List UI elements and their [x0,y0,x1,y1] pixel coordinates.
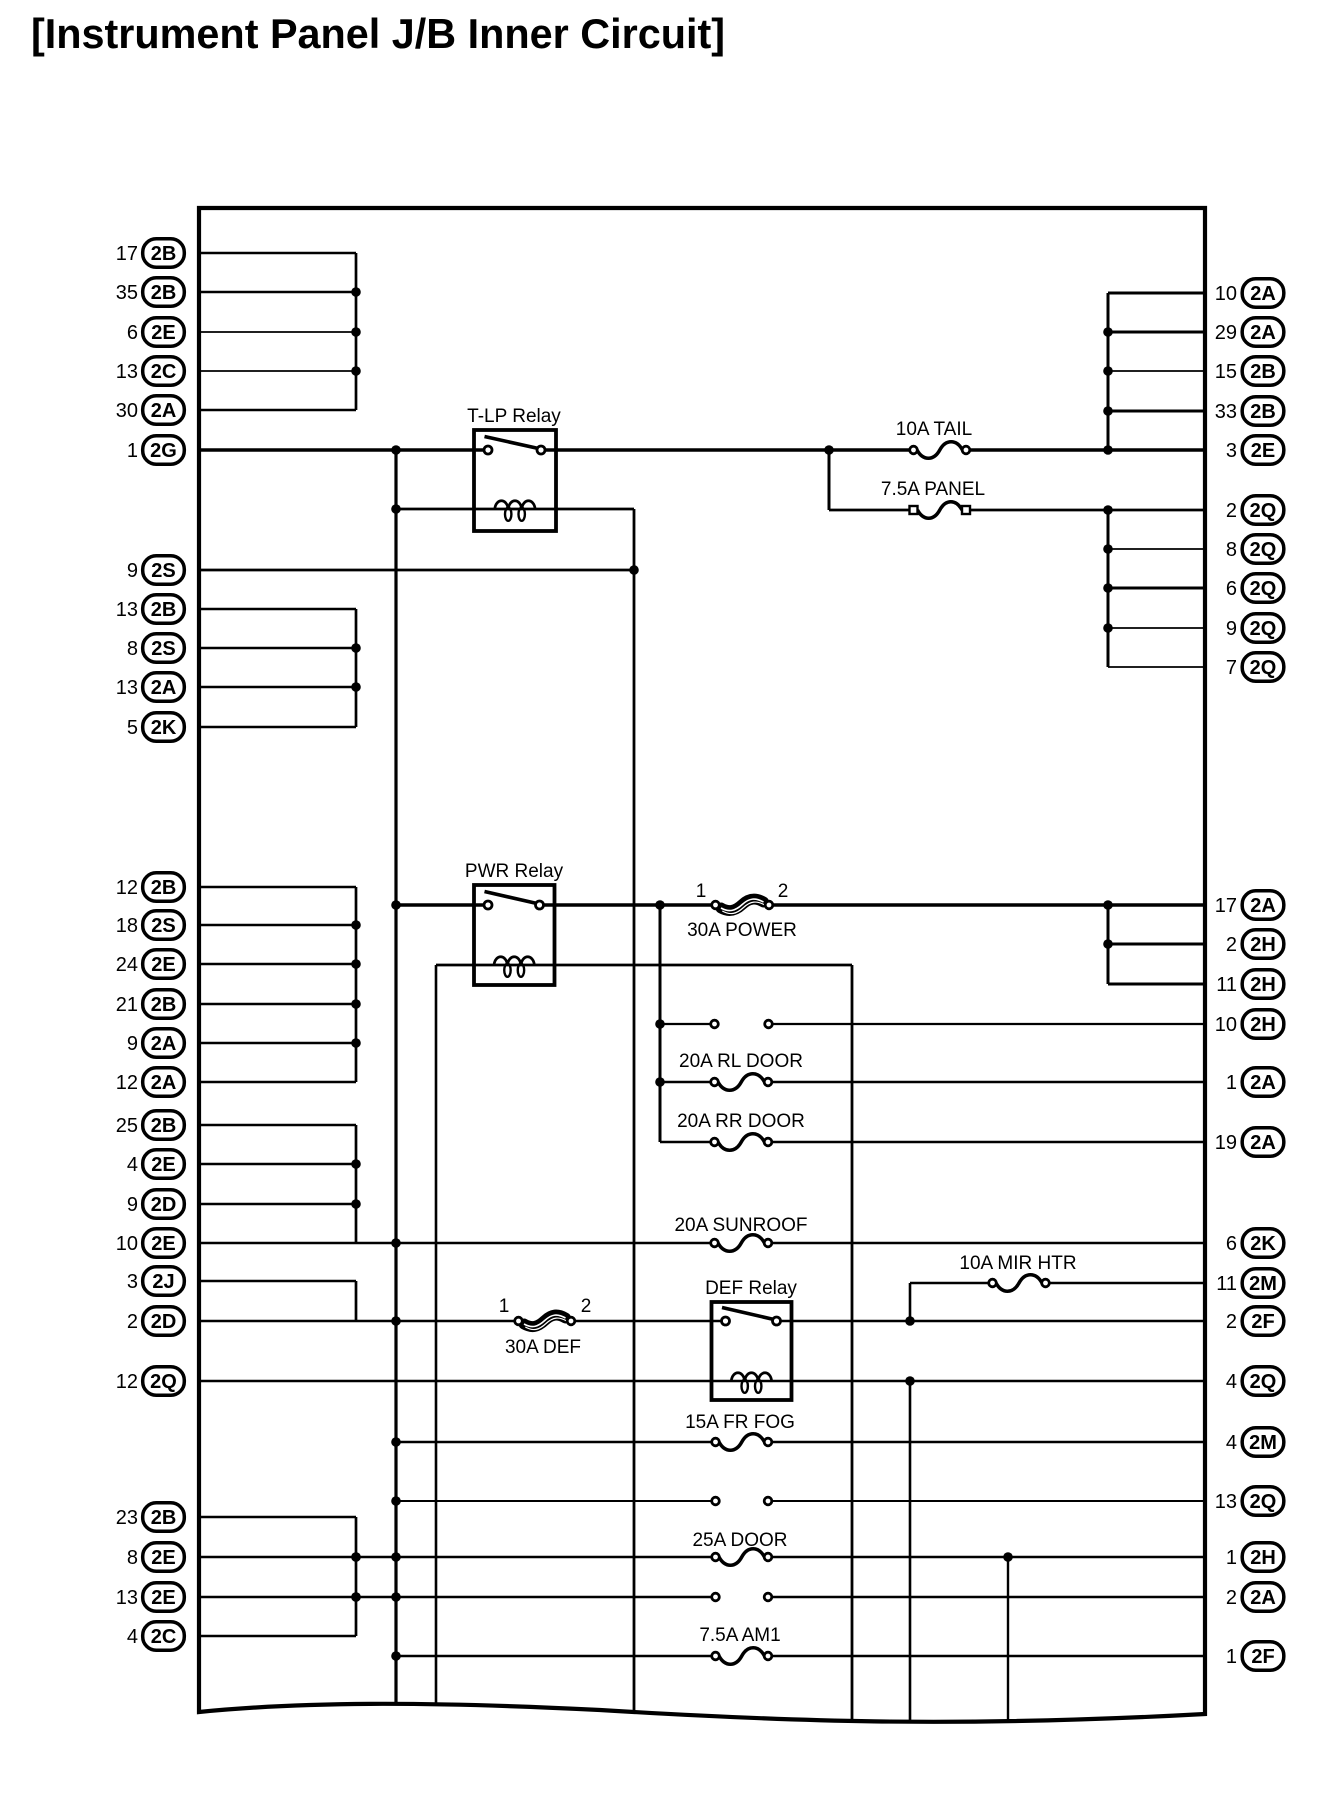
svg-text:2M: 2M [1249,1432,1277,1454]
svg-text:8: 8 [127,638,138,660]
svg-text:3: 3 [1226,440,1237,462]
svg-text:2B: 2B [151,1507,177,1529]
svg-text:2D: 2D [151,1194,177,1216]
svg-text:2Q: 2Q [1250,657,1277,679]
svg-text:2: 2 [1226,1587,1237,1609]
svg-text:1: 1 [127,440,138,462]
svg-text:2E: 2E [151,1587,175,1609]
svg-text:2: 2 [778,881,789,902]
svg-text:13: 13 [1215,1491,1237,1513]
svg-text:2B: 2B [1250,361,1276,383]
svg-text:2H: 2H [1250,974,1276,996]
svg-text:25: 25 [116,1115,138,1137]
svg-text:2E: 2E [1251,440,1275,462]
svg-text:2: 2 [1226,1311,1237,1333]
svg-text:10A TAIL: 10A TAIL [896,419,972,440]
svg-text:13: 13 [116,599,138,621]
svg-text:2S: 2S [151,638,175,660]
svg-text:20A RR DOOR: 20A RR DOOR [677,1111,805,1132]
svg-text:2B: 2B [151,877,177,899]
svg-text:2: 2 [127,1311,138,1333]
svg-text:18: 18 [116,915,138,937]
svg-text:2Q: 2Q [1250,1491,1277,1513]
svg-text:2B: 2B [151,994,177,1016]
svg-text:9: 9 [1226,618,1237,640]
svg-text:4: 4 [127,1626,138,1648]
svg-text:9: 9 [127,560,138,582]
svg-text:2C: 2C [151,361,177,383]
svg-text:2E: 2E [151,322,175,344]
svg-text:24: 24 [116,954,138,976]
svg-text:20A RL DOOR: 20A RL DOOR [679,1051,803,1072]
svg-text:10: 10 [116,1233,138,1255]
svg-text:2A: 2A [151,400,177,422]
svg-text:1: 1 [1226,1646,1237,1668]
svg-text:2B: 2B [151,1115,177,1137]
svg-text:30A DEF: 30A DEF [505,1337,581,1358]
svg-text:2E: 2E [151,1233,175,1255]
svg-text:2E: 2E [151,954,175,976]
svg-text:17: 17 [1215,895,1237,917]
svg-text:2A: 2A [151,1033,177,1055]
svg-text:2Q: 2Q [1250,500,1277,522]
svg-text:5: 5 [127,717,138,739]
svg-text:2A: 2A [1250,895,1276,917]
svg-text:33: 33 [1215,401,1237,423]
svg-text:DEF Relay: DEF Relay [705,1278,797,1299]
svg-text:6: 6 [127,322,138,344]
svg-text:35: 35 [116,282,138,304]
svg-text:13: 13 [116,361,138,383]
svg-text:25A DOOR: 25A DOOR [692,1530,787,1551]
svg-text:12: 12 [116,1371,138,1393]
svg-text:2C: 2C [151,1626,177,1648]
svg-text:2Q: 2Q [150,1371,177,1393]
svg-text:2A: 2A [151,677,177,699]
svg-text:2E: 2E [151,1547,175,1569]
svg-text:6: 6 [1226,1233,1237,1255]
svg-text:7.5A AM1: 7.5A AM1 [699,1625,780,1646]
svg-text:2Q: 2Q [1250,539,1277,561]
svg-text:17: 17 [116,243,138,265]
svg-text:10A MIR HTR: 10A MIR HTR [959,1253,1076,1274]
svg-text:9: 9 [127,1194,138,1216]
svg-text:30A POWER: 30A POWER [687,920,797,941]
svg-text:2A: 2A [1250,283,1276,305]
svg-text:2F: 2F [1251,1311,1274,1333]
svg-text:12: 12 [116,1072,138,1094]
svg-text:PWR Relay: PWR Relay [465,861,564,882]
svg-text:1: 1 [696,881,707,902]
svg-text:2G: 2G [150,440,177,462]
svg-text:1: 1 [1226,1072,1237,1094]
svg-text:2B: 2B [151,282,177,304]
svg-text:13: 13 [116,677,138,699]
svg-text:2A: 2A [1250,1132,1276,1154]
svg-text:2D: 2D [151,1311,177,1333]
svg-text:2M: 2M [1249,1273,1277,1295]
svg-text:2A: 2A [1250,1072,1276,1094]
svg-text:[Instrument Panel J/B Inner Ci: [Instrument Panel J/B Inner Circuit] [31,10,725,57]
svg-text:12: 12 [116,877,138,899]
svg-text:2: 2 [581,1296,592,1317]
svg-text:2Q: 2Q [1250,618,1277,640]
svg-text:7.5A PANEL: 7.5A PANEL [881,479,985,500]
svg-text:2: 2 [1226,500,1237,522]
svg-text:8: 8 [1226,539,1237,561]
svg-text:T-LP Relay: T-LP Relay [467,406,561,427]
svg-text:30: 30 [116,400,138,422]
svg-text:2A: 2A [151,1072,177,1094]
svg-text:11: 11 [1216,974,1237,996]
svg-text:2F: 2F [1251,1646,1274,1668]
svg-text:2B: 2B [1250,401,1276,423]
svg-text:21: 21 [116,994,138,1016]
svg-text:2J: 2J [152,1271,174,1293]
svg-text:2Q: 2Q [1250,1371,1277,1393]
svg-text:3: 3 [127,1271,138,1293]
svg-text:2K: 2K [1250,1233,1276,1255]
svg-text:10: 10 [1215,1014,1237,1036]
svg-text:29: 29 [1215,322,1237,344]
svg-text:9: 9 [127,1033,138,1055]
svg-text:2B: 2B [151,243,177,265]
svg-text:2B: 2B [151,599,177,621]
svg-text:2H: 2H [1250,1547,1276,1569]
svg-text:13: 13 [116,1587,138,1609]
svg-text:2A: 2A [1250,1587,1276,1609]
svg-text:15: 15 [1215,361,1237,383]
svg-text:2H: 2H [1250,1014,1276,1036]
svg-text:2S: 2S [151,915,175,937]
svg-text:2E: 2E [151,1154,175,1176]
svg-text:19: 19 [1215,1132,1237,1154]
svg-text:20A SUNROOF: 20A SUNROOF [674,1215,807,1236]
svg-text:2A: 2A [1250,322,1276,344]
svg-text:4: 4 [1226,1371,1237,1393]
svg-text:2Q: 2Q [1250,578,1277,600]
svg-text:2H: 2H [1250,934,1276,956]
svg-text:1: 1 [499,1296,510,1317]
svg-text:2K: 2K [151,717,177,739]
svg-text:2S: 2S [151,560,175,582]
svg-text:7: 7 [1226,657,1237,679]
svg-text:10: 10 [1215,283,1237,305]
svg-text:15A FR FOG: 15A FR FOG [685,1412,795,1433]
svg-text:8: 8 [127,1547,138,1569]
svg-text:11: 11 [1216,1273,1237,1295]
svg-text:6: 6 [1226,578,1237,600]
svg-text:4: 4 [127,1154,138,1176]
svg-text:4: 4 [1226,1432,1237,1454]
svg-text:23: 23 [116,1507,138,1529]
svg-text:1: 1 [1226,1547,1237,1569]
svg-text:2: 2 [1226,934,1237,956]
